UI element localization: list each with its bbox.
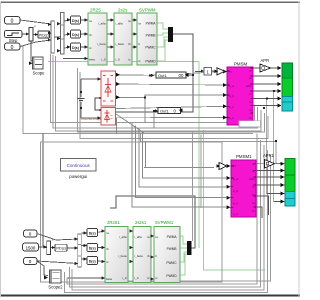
wires PMSM right to sinks [253, 68, 285, 202]
svg-text:wbc: wbc [246, 84, 252, 88]
battery plates [78, 98, 85, 100]
wire bottom loop 6 [108, 155, 271, 281]
wire pmsm1 in 5 [144, 141, 214, 167]
svg-text:i_0: i_0 [122, 276, 127, 280]
svg-text:ia: ia [128, 19, 131, 23]
green wire PWMC to mux [157, 37, 168, 47]
mux bar top [51, 21, 54, 53]
green vertical second [204, 130, 266, 270]
block SVPWM1 [154, 220, 180, 283]
svg-text:i_alfa: i_alfa [119, 235, 127, 239]
arrows into pmsm and converter outputs [116, 70, 227, 120]
svg-text:te: te [249, 76, 252, 80]
block 2s2s1 [133, 220, 151, 283]
svg-text:2R2S: 2R2S [90, 8, 101, 13]
Continuous powergui block [61, 159, 97, 180]
wire mux to gate corner [116, 34, 194, 112]
svg-text:Scope: Scope [33, 71, 46, 76]
junction dots dc [80, 91, 102, 111]
arrows into green stack top [278, 66, 282, 108]
svg-text:i_alfa: i_alfa [98, 22, 106, 26]
wires bottom consts [37, 231, 105, 276]
wire step to sum block [22, 33, 29, 35]
wire Ds3 to 2R2S ic [81, 46, 89, 48]
D(s) block 3 [71, 43, 81, 51]
svg-text:D(s): D(s) [89, 260, 97, 264]
svg-text:i_beta: i_beta [118, 254, 127, 258]
Out1 block lower [158, 107, 183, 113]
svg-text:D(s): D(s) [72, 19, 80, 23]
svg-text:ia: ia [90, 19, 93, 23]
APR triangle [260, 58, 271, 72]
DC source loop [81, 79, 101, 118]
svg-text:APR: APR [261, 58, 270, 63]
PMSM1 block [231, 154, 256, 217]
svg-text:u_a: u_a [233, 177, 238, 181]
wire converter B to pmsm [116, 84, 228, 85]
svg-text:iq: iq [249, 108, 252, 112]
svg-text:ib: ib [147, 254, 150, 258]
wire bus line 1 [51, 54, 255, 122]
svg-text:u_c: u_c [229, 105, 234, 109]
wire converter C to pmsm [116, 95, 228, 97]
wire speed ref to green2 [141, 133, 282, 163]
svg-text:PWMD: PWMD [166, 274, 177, 278]
green wire SVPWM1 PWMD to mux [178, 254, 187, 275]
wire Ds1 to 2R2S ia [81, 19, 89, 21]
step block [5, 31, 23, 43]
svg-text:PID(s): PID(s) [39, 34, 49, 38]
green wire SVPWM1 PWMA to mux [178, 236, 187, 244]
sum narrow block [29, 24, 36, 41]
green scope stack top [282, 63, 293, 97]
arrows into PMSM1 [227, 164, 231, 209]
svg-text:ia: ia [147, 235, 150, 239]
svg-text:1500: 1500 [26, 245, 36, 250]
wire const b down left [20, 47, 253, 134]
svg-text:PWMC: PWMC [145, 46, 156, 50]
green wire SVPWM1 PWMB to mux [178, 247, 187, 249]
wire bottom loop 3 [70, 140, 261, 287]
dc link small loop [95, 98, 101, 110]
svg-text:SVPWM1: SVPWM1 [155, 220, 174, 225]
arrows into green stack bottom [281, 162, 285, 204]
gain arrow top [215, 68, 225, 75]
svg-text:Out1: Out1 [158, 73, 167, 78]
wire scope input [31, 41, 33, 61]
svg-text:i_alfa: i_alfa [115, 22, 123, 26]
label box under PMSM [239, 121, 261, 127]
bottom group: constant 0 [24, 230, 38, 237]
wire bus line 4 [78, 68, 265, 132]
wire bottom loop 4 [72, 145, 264, 290]
frame border left [0, 2, 1, 298]
svg-text:i_0: i_0 [115, 58, 120, 62]
wire demux to Ds1 [64, 20, 70, 21]
frame border right [299, 2, 300, 298]
green long pwm vertical right [198, 61, 200, 248]
green wire PWMB to mux [157, 33, 168, 35]
wire fdbk to bottom sum [43, 134, 47, 248]
svg-text:0: 0 [11, 19, 14, 25]
D(s) block 2 [71, 30, 81, 38]
D(s) bottom 2 [87, 244, 98, 252]
svg-text:APR1: APR1 [263, 153, 275, 158]
D(s) block 1 [71, 16, 81, 24]
frame border top [0, 2, 300, 4]
junction dots wires [144, 74, 277, 142]
constant 0 bottom [5, 43, 21, 51]
scope2 block [44, 270, 63, 290]
wire demux to Ds3 [64, 47, 70, 48]
svg-text:D(s): D(s) [72, 46, 80, 50]
green scope stack bottom [285, 159, 295, 192]
svg-text:PWMD: PWMD [145, 60, 156, 64]
svg-text:u_n: u_n [233, 212, 238, 216]
svg-text:SVPWM: SVPWM [139, 8, 156, 13]
block 2R2S [88, 8, 107, 66]
svg-text:i_0: i_0 [101, 58, 106, 62]
converter bridge 2 [101, 108, 116, 126]
wire 2R2S to 2s2s a [107, 19, 114, 21]
input arrowheads bottom group [43, 229, 154, 280]
wire demux to Ds2 [64, 34, 70, 35]
wire staircase pmsm1 in 1 [132, 123, 226, 207]
PID block [38, 31, 50, 38]
wire bus line 5 [80, 72, 268, 139]
wire tap down 2 [153, 111, 155, 128]
PMSM1 port ticks [231, 164, 256, 208]
wire 2s2s to SVPWM c [132, 46, 137, 48]
pwm mux bar bottom [187, 241, 192, 255]
wire 2s2s to SVPWM a [132, 19, 137, 21]
Out1 block top [156, 72, 189, 78]
green wire PWMD to mux [157, 40, 168, 61]
svg-text:D(s): D(s) [89, 232, 97, 236]
svg-text:i_alfa: i_alfa [134, 235, 142, 239]
svg-text:D(s): D(s) [72, 33, 80, 37]
svg-text:beta: beta [89, 58, 95, 62]
svg-text:PWMB: PWMB [167, 247, 177, 251]
converter bridge 1 [101, 71, 116, 106]
wire diag converter2 to bus [116, 114, 144, 133]
bottom subsystem rectangle [41, 142, 223, 282]
svg-text:ib: ib [90, 33, 93, 37]
svg-text:beta: beta [106, 277, 112, 281]
svg-text:0: 0 [11, 45, 14, 51]
block 2s2s [114, 8, 132, 66]
wires PMSM1 right to sinks [256, 164, 285, 218]
frame border bottom [0, 295, 300, 297]
green wire PWMA to mux [157, 23, 168, 29]
svg-text:u_b: u_b [233, 189, 238, 193]
constant 1500 [23, 243, 39, 251]
svg-text:PMSM1: PMSM1 [236, 154, 252, 159]
svg-text:Step: Step [9, 38, 18, 43]
wire converter A to pmsm [116, 72, 228, 76]
svg-text:ib: ib [107, 247, 110, 251]
svg-text:i_0: i_0 [134, 276, 139, 280]
svg-text:Scope2: Scope2 [48, 285, 63, 290]
svg-text:iq: iq [252, 201, 255, 205]
wire bus line 2 [53, 55, 258, 128]
block 2R2S1 [105, 220, 128, 283]
PID block bottom [55, 244, 67, 251]
svg-text:wbc: wbc [249, 177, 255, 181]
svg-text:PID(s): PID(s) [56, 247, 66, 251]
svg-text:PWMB: PWMB [146, 34, 156, 38]
wire beta feedback into 2R2S [63, 58, 88, 60]
PMSM port ticks [227, 68, 253, 118]
demux bar top [61, 13, 65, 55]
wire converter2 b to pmsm [116, 117, 228, 119]
svg-text:0: 0 [29, 232, 32, 237]
wire converter2 a to pmsm [116, 106, 228, 108]
wire staircase pmsm1 in 2 [135, 126, 226, 198]
goto block 1 [189, 68, 217, 76]
wire bus line 3 [56, 56, 262, 131]
sum narrow block bottom [47, 238, 54, 255]
wire staircase pmsm1 in 4 [142, 131, 226, 179]
wire sum to PID [33, 34, 38, 36]
svg-text:u_n: u_n [229, 116, 234, 120]
wire 2R2S to 2s2s b [107, 33, 114, 35]
svg-text:PMSM: PMSM [234, 62, 248, 67]
svg-text:u_a: u_a [229, 84, 234, 88]
svg-text:u_b: u_b [229, 94, 234, 98]
wire const0 b to mux [20, 40, 51, 47]
svg-text:i_beta: i_beta [115, 42, 124, 46]
wire mux1 to demux [54, 36, 60, 38]
wire vert converter2 down [116, 118, 118, 133]
wire mux1 up to converter2 [110, 196, 195, 248]
D(s) bottom 1 [87, 229, 98, 237]
svg-text:id: id [249, 100, 252, 104]
pwm mux bar top [168, 27, 173, 42]
D(s) bottom 3 [87, 257, 98, 265]
svg-text:0: 0 [29, 259, 32, 264]
svg-text:ia: ia [139, 22, 142, 26]
gain arrow bottom [217, 162, 227, 169]
wire 2s2s to SVPWM b [132, 33, 137, 35]
wire PID to mux [49, 33, 51, 35]
PMSM block [227, 62, 253, 126]
svg-text:ib: ib [128, 42, 131, 46]
svg-text:powergui: powergui [69, 174, 87, 179]
svg-text:i_beta: i_beta [134, 254, 143, 258]
wire staircase pmsm1 in 3 [139, 128, 226, 187]
svg-text:2s2s1: 2s2s1 [135, 220, 147, 225]
wire bottom loop 1 [67, 277, 105, 279]
constant 0 b [24, 258, 38, 265]
svg-text:D(s): D(s) [89, 247, 97, 251]
mux bar bottom [78, 234, 82, 267]
svg-text:00: 00 [179, 73, 184, 78]
wire const0 top to mux [20, 20, 51, 24]
svg-text:Continuous: Continuous [67, 163, 91, 168]
wire bottom loop 5 [65, 150, 268, 293]
svg-text:te: te [252, 169, 255, 173]
wire 2R2S to 2s2s c [107, 46, 114, 48]
wire Ds2 to 2R2S ib [81, 33, 89, 35]
green long pwm line horizontal [48, 60, 199, 62]
block SVPWM [137, 8, 157, 66]
svg-text:ia: ia [107, 231, 110, 235]
svg-text:PWMC: PWMC [166, 261, 177, 265]
svg-text:i_beta: i_beta [97, 42, 106, 46]
wire vertical mid right [191, 131, 193, 241]
svg-text:2R2S1: 2R2S1 [107, 220, 120, 225]
svg-text:2s2s: 2s2s [118, 8, 128, 13]
green wire SVPWM1 PWMC to mux [178, 252, 187, 262]
wire vertical mid right b [200, 135, 202, 209]
cyan stack bottom [285, 192, 295, 207]
svg-text:u_c: u_c [233, 201, 238, 205]
svg-text:PWMA: PWMA [167, 235, 178, 239]
wire tap down 1 [144, 97, 146, 123]
wire bottom loop 2 [67, 134, 257, 285]
cyan stack top [282, 97, 293, 112]
input arrowheads top group [26, 18, 204, 120]
constant 0 top [5, 17, 21, 25]
svg-text:PWMA: PWMA [146, 22, 157, 26]
APR1 triangle [263, 153, 275, 168]
svg-text:Out1: Out1 [160, 108, 169, 113]
svg-text:ia: ia [156, 235, 159, 239]
scope block [29, 57, 45, 76]
